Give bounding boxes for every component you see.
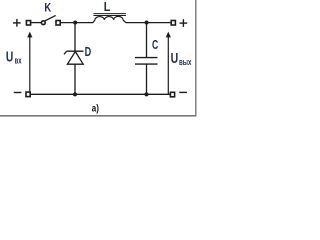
plus sign input	[13, 19, 21, 27]
terminal square output top	[171, 21, 175, 26]
svg-text:а): а)	[92, 102, 99, 114]
switch K terminal square	[56, 21, 60, 26]
svg-text:вх: вх	[15, 55, 22, 66]
svg-text:K: K	[44, 0, 51, 14]
minus sign output	[179, 91, 187, 93]
diode D	[64, 23, 84, 95]
switch K lever	[45, 15, 56, 21]
junction node diode top	[73, 21, 77, 25]
capacitor top plate	[135, 57, 158, 59]
frame right border	[195, 0, 197, 116]
svg-text:L: L	[104, 0, 111, 14]
terminal square output bottom	[170, 92, 174, 97]
svg-text:U: U	[6, 50, 13, 66]
svg-text:U: U	[171, 51, 179, 67]
junction node diode bottom	[73, 92, 77, 96]
diode cathode bar	[67, 50, 84, 52]
capacitor top wire	[146, 23, 148, 58]
junction node capacitor top	[145, 21, 149, 25]
inductor L core lines	[93, 14, 126, 16]
diode triangle	[67, 52, 83, 65]
junction node capacitor bottom	[145, 92, 149, 96]
svg-text:D: D	[85, 45, 92, 59]
diode top wire	[74, 23, 76, 52]
terminal square input top	[26, 21, 30, 25]
wire top rail: switch to inductor	[60, 22, 93, 24]
wire top rail: inductor to output terminal	[126, 22, 172, 24]
svg-text:вых: вых	[179, 57, 192, 68]
switch K contact circle	[41, 21, 45, 25]
arrow U input	[27, 32, 32, 94]
diode cathode tick	[64, 51, 67, 54]
label U output	[171, 51, 192, 68]
wire bottom rail	[30, 93, 170, 95]
label U input	[6, 50, 22, 67]
capacitor bottom wire	[146, 64, 148, 94]
label D	[85, 45, 92, 59]
capacitor C	[135, 23, 158, 95]
minus sign input	[14, 92, 22, 94]
caption a)	[92, 102, 99, 114]
label K	[44, 0, 51, 14]
capacitor bottom plate	[135, 63, 158, 65]
label L	[104, 0, 111, 14]
diode bottom wire	[74, 64, 76, 94]
label C	[152, 38, 158, 52]
terminal square input bottom	[26, 92, 30, 97]
inductor L	[93, 16, 126, 22]
plus sign output	[180, 19, 188, 27]
wire top rail: input terminal to switch	[31, 22, 42, 24]
arrow U output	[166, 32, 171, 94]
svg-text:C: C	[152, 38, 158, 52]
frame bottom border	[0, 115, 196, 117]
